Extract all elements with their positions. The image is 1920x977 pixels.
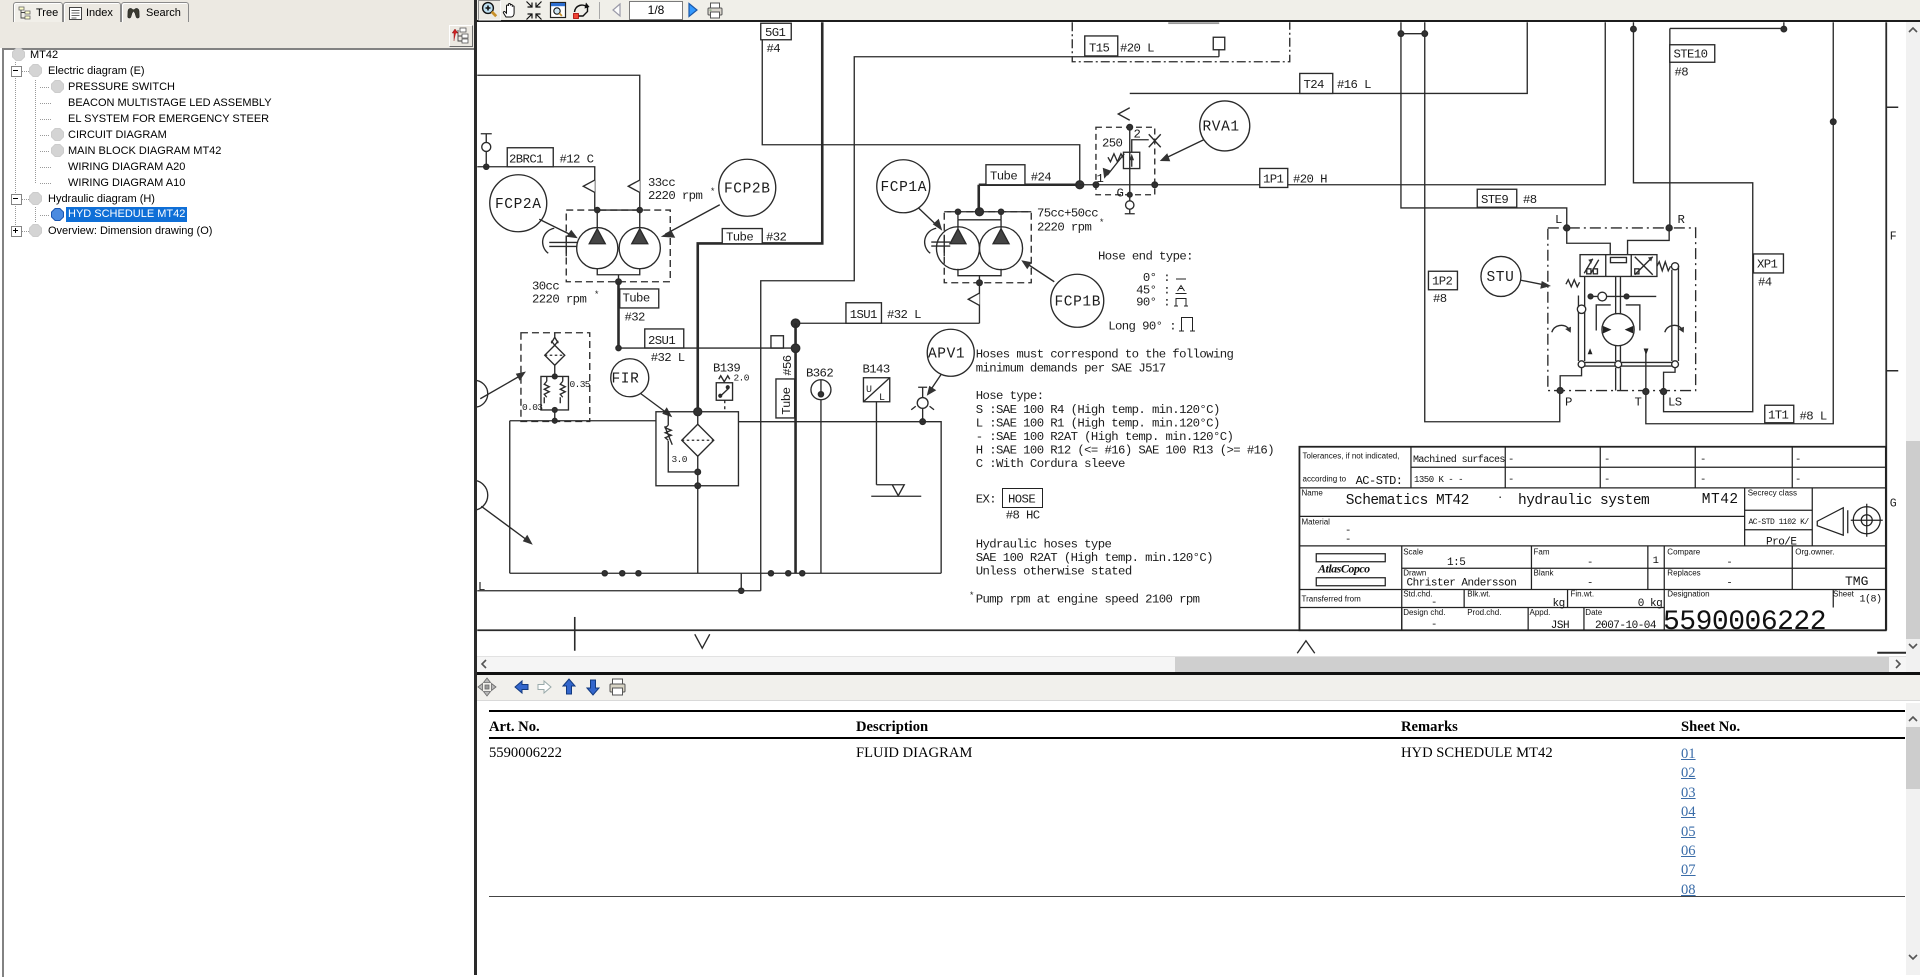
flow arrow on 2BRC1 line bbox=[583, 180, 595, 192]
wire: 2BRC1 suction line bbox=[477, 167, 595, 210]
STU right spring bbox=[1657, 262, 1671, 271]
wire: STE10 jumper and R riser bbox=[1670, 28, 1784, 228]
svg-text:90° :: 90° : bbox=[1136, 296, 1170, 310]
label STE9 box bbox=[1477, 189, 1517, 207]
valve RVA1 dashed envelope bbox=[1096, 127, 1155, 195]
sensor B143 level switch bbox=[863, 378, 889, 402]
node on LS riser bbox=[1631, 26, 1637, 32]
wire: L return line bbox=[477, 573, 761, 591]
svg-text:B362: B362 bbox=[806, 367, 833, 381]
svg-text:#8: #8 bbox=[1523, 193, 1537, 207]
STU bottom gallery double line bbox=[1582, 362, 1676, 366]
STU T branch bbox=[1645, 349, 1647, 391]
svg-text:B143: B143 bbox=[863, 363, 890, 377]
node: STU P port bbox=[1557, 388, 1563, 394]
FCP2 outlet bracket bbox=[597, 268, 640, 282]
pump FCP2A flow triangle bbox=[589, 210, 605, 244]
pressure switch B139 bbox=[716, 383, 732, 401]
wire: B143 stem bbox=[875, 402, 877, 485]
node: STU R port bbox=[1666, 225, 1672, 231]
wire: Tube #24 thick FCP1 feed bbox=[979, 185, 1080, 211]
balloon clipped lower left bbox=[458, 480, 488, 510]
svg-text:Replaces: Replaces bbox=[1667, 569, 1700, 578]
cylinder gray bar bbox=[1168, 22, 1219, 24]
svg-text:G: G bbox=[1890, 497, 1897, 510]
FCP1 shaft arc bbox=[925, 228, 937, 253]
svg-text:-: - bbox=[1726, 578, 1732, 590]
steering unit STU dash-dot envelope bbox=[1548, 228, 1696, 391]
svg-text:L: L bbox=[879, 393, 885, 404]
svg-text:-: - bbox=[1795, 454, 1801, 466]
svg-text:FCP1B: FCP1B bbox=[1055, 295, 1102, 311]
test point symbol above 2BRC1 bbox=[481, 134, 492, 167]
balloon FCP1B bbox=[1051, 274, 1104, 327]
svg-text:2007-10-04: 2007-10-04 bbox=[1595, 620, 1657, 632]
FCP1 outlet bracket bbox=[958, 269, 1001, 283]
svg-text:2: 2 bbox=[1134, 128, 1141, 142]
nodes on reservoir line bbox=[602, 571, 607, 576]
title block outer frame bbox=[1299, 447, 1885, 631]
svg-text:Sheet: Sheet bbox=[1833, 590, 1855, 599]
svg-text:2220 rpm: 2220 rpm bbox=[1037, 221, 1091, 235]
node on 1P2 riser bbox=[1422, 31, 1428, 37]
label XP1 box bbox=[1753, 254, 1783, 273]
label 2SU1 box bbox=[645, 329, 684, 348]
label 2BRC1 bbox=[507, 148, 553, 167]
svg-text:L :SAE 100 R1 (High temp. min: L :SAE 100 R1 (High temp. min.120°C) bbox=[976, 416, 1220, 430]
leader FIR bbox=[640, 393, 667, 413]
filter bypass branch bbox=[665, 412, 698, 472]
svg-text:Compare: Compare bbox=[1667, 548, 1700, 557]
wire: strainer return line bbox=[510, 421, 656, 574]
label 1P1 box bbox=[1260, 168, 1288, 187]
svg-text:-: - bbox=[1345, 534, 1351, 546]
svg-text:FIR: FIR bbox=[612, 372, 640, 388]
filter FIR diamond bbox=[682, 424, 714, 456]
connector square on 2SU1 line bbox=[771, 336, 784, 348]
tree rows bbox=[12, 48, 25, 61]
frame fold dash bbox=[1877, 652, 1908, 654]
svg-text:-: - bbox=[1587, 578, 1593, 590]
node: RVA1 top port bbox=[1127, 124, 1133, 130]
svg-text:#4: #4 bbox=[1758, 276, 1772, 290]
node: FIR junctions bbox=[697, 412, 699, 486]
svg-text:-: - bbox=[1795, 474, 1801, 486]
svg-text:#16 L: #16 L bbox=[1337, 78, 1371, 92]
hose end glyphs bbox=[1174, 279, 1195, 331]
node: RVA1 right port bbox=[1152, 182, 1158, 188]
wire across FCP1 case top bbox=[947, 211, 1031, 213]
svg-text:AtlasCopco: AtlasCopco bbox=[1317, 562, 1370, 576]
pump FCP1A circle bbox=[936, 227, 979, 270]
wire: FCP1 outlet to 1SU1 bbox=[796, 283, 980, 324]
RVA1 pilot riser bbox=[1130, 127, 1149, 195]
left blue arrow bbox=[515, 681, 528, 693]
svg-text:Tube: Tube bbox=[623, 292, 650, 306]
drawing frame right border bbox=[1885, 22, 1887, 630]
svg-text:Tube: Tube bbox=[990, 170, 1017, 184]
B139 dashed stem bbox=[724, 400, 726, 412]
svg-text:-: - bbox=[1508, 474, 1514, 486]
svg-text:1P2: 1P2 bbox=[1432, 275, 1453, 289]
svg-text:FCP2B: FCP2B bbox=[724, 182, 771, 198]
svg-text:1(8): 1(8) bbox=[1860, 594, 1882, 606]
svg-text:30cc: 30cc bbox=[532, 280, 559, 294]
svg-text:-: - bbox=[1700, 454, 1706, 466]
svg-text:3.0: 3.0 bbox=[672, 454, 688, 465]
filter FIR housing bbox=[656, 412, 739, 486]
STU P drop bbox=[1560, 368, 1581, 391]
STU gerotor triangles bbox=[1603, 326, 1633, 334]
wire: APV1 drain line bbox=[738, 422, 941, 574]
svg-text:#8: #8 bbox=[1675, 66, 1689, 80]
svg-text:-: - bbox=[1604, 474, 1610, 486]
svg-text:L: L bbox=[478, 580, 485, 594]
svg-text:MT42: MT42 bbox=[1702, 492, 1739, 508]
svg-text:SAE 100 R2AT (High temp. min.1: SAE 100 R2AT (High temp. min.120°C) bbox=[976, 551, 1213, 565]
svg-text:2220 rpm: 2220 rpm bbox=[532, 293, 586, 307]
svg-text:Christer Andersson: Christer Andersson bbox=[1407, 578, 1517, 590]
RVA1 relief cartridge square bbox=[1123, 152, 1139, 168]
svg-text:STE9: STE9 bbox=[1481, 193, 1508, 207]
balloon FIS clipped at edge bbox=[461, 380, 488, 407]
STU valve block bbox=[1580, 255, 1657, 277]
svg-text:EX:: EX: bbox=[976, 493, 996, 507]
label 1SU1 box bbox=[846, 303, 882, 324]
right white arrow bbox=[538, 681, 551, 693]
pump FCP2A circle bbox=[577, 228, 618, 269]
node: STU L port bbox=[1564, 225, 1570, 231]
forward bbox=[689, 4, 697, 17]
svg-text:Fin.wt.: Fin.wt. bbox=[1571, 590, 1595, 599]
node: FCP2A pump inlet bbox=[595, 207, 600, 212]
STU left spring bbox=[1566, 280, 1580, 287]
svg-text:#20 L: #20 L bbox=[1120, 42, 1154, 56]
wire bridge at top bbox=[1401, 33, 1425, 35]
svg-text:XP1: XP1 bbox=[1757, 258, 1778, 272]
svg-text:Material: Material bbox=[1302, 518, 1331, 527]
label 1P2 box bbox=[1428, 271, 1457, 290]
svg-text:U: U bbox=[866, 385, 872, 396]
frame caret mark bbox=[1297, 641, 1315, 654]
svg-text:Org.owner.: Org.owner. bbox=[1795, 548, 1834, 557]
svg-text:S :SAE 100 R4 (High temp. min: S :SAE 100 R4 (High temp. min.120°C) bbox=[976, 403, 1220, 417]
node on return line bbox=[552, 418, 557, 423]
svg-text:Long 90° :: Long 90° : bbox=[1108, 320, 1176, 334]
wire: 1P1 pressure line bbox=[1080, 22, 1606, 185]
pump FCP2B circle bbox=[619, 228, 660, 269]
node: FCP1 outlet bbox=[977, 280, 983, 286]
svg-text:Designation: Designation bbox=[1667, 590, 1709, 599]
svg-text:Machined surfaces: Machined surfaces bbox=[1413, 454, 1505, 466]
svg-text:*: * bbox=[594, 290, 599, 300]
label Tube #24 box bbox=[986, 165, 1025, 185]
STU down arrow bbox=[1644, 349, 1649, 356]
svg-text:1P1: 1P1 bbox=[1263, 173, 1284, 187]
svg-text:5G1: 5G1 bbox=[765, 26, 786, 40]
svg-text:C :With Cordura sleeve: C :With Cordura sleeve bbox=[976, 457, 1125, 471]
svg-text:Hose type:: Hose type: bbox=[976, 389, 1044, 403]
node below bypass bbox=[552, 408, 557, 413]
node: 2BRC1 junction bbox=[484, 164, 489, 169]
svg-text:Blank: Blank bbox=[1534, 569, 1555, 578]
thick tube wire FCP2 outlet down to 2SU1 bbox=[617, 282, 620, 348]
svg-text:Design chd.: Design chd. bbox=[1403, 608, 1445, 617]
svg-text:Hoses must correspond to the f: Hoses must correspond to the following bbox=[976, 348, 1234, 362]
svg-text:T15: T15 bbox=[1089, 42, 1110, 56]
splitter bbox=[474, 0, 477, 975]
STU left curved arrow bbox=[1552, 325, 1569, 332]
svg-text:AC-STD 1102 K/: AC-STD 1102 K/ bbox=[1749, 518, 1810, 527]
EX HOSE box bbox=[1003, 489, 1043, 508]
svg-text:1: 1 bbox=[1097, 172, 1104, 186]
leader FCP1B bbox=[1026, 263, 1054, 282]
svg-text:2SU1: 2SU1 bbox=[648, 334, 675, 348]
label Tube #32 upper bbox=[722, 229, 762, 244]
strainer filter diamond bbox=[545, 345, 565, 365]
STU LS branch bbox=[1664, 368, 1676, 392]
label Tube #32 on FCP2 outlet bbox=[620, 289, 659, 308]
STU right cell arrows bbox=[1635, 257, 1653, 275]
label T15 box bbox=[1085, 36, 1118, 56]
pump FCP2B flow triangle bbox=[632, 210, 648, 244]
node: FCP2 outlet junction bbox=[616, 279, 622, 285]
wire: T24 line bbox=[1130, 22, 1528, 93]
svg-text:Transferred from: Transferred from bbox=[1302, 595, 1362, 604]
frame center V mark bbox=[695, 634, 710, 648]
wire: STE9 from top bbox=[1401, 22, 1567, 228]
leader FCP2A bbox=[539, 219, 573, 236]
svg-text:G: G bbox=[1117, 187, 1124, 201]
projection cone symbol bbox=[1817, 508, 1848, 536]
svg-text:#56: #56 bbox=[781, 355, 795, 376]
svg-text:according to: according to bbox=[1303, 475, 1347, 484]
leader RVA1 bbox=[1165, 140, 1204, 159]
svg-text:FCP1A: FCP1A bbox=[881, 180, 928, 196]
RVA1 spring bbox=[1108, 154, 1124, 162]
title block bottom rows bbox=[1299, 590, 1833, 631]
tree connector dotted lines bbox=[15, 62, 16, 230]
label Tube #56 vertical bbox=[776, 379, 795, 418]
svg-text:Secrecy class: Secrecy class bbox=[1748, 489, 1797, 498]
up blue arrow bbox=[563, 679, 575, 694]
node: STU T port bbox=[1643, 389, 1649, 395]
move icon bbox=[478, 678, 496, 696]
svg-text:Scale: Scale bbox=[1403, 548, 1424, 557]
svg-text:R: R bbox=[1678, 213, 1686, 227]
wire: FCP2B inlet from left edge bbox=[477, 75, 640, 210]
node: APV1 tee bbox=[920, 419, 926, 425]
node: STU LS port bbox=[1661, 389, 1667, 395]
svg-text:T24: T24 bbox=[1304, 78, 1325, 92]
node: FCP1 thick feed junction bbox=[975, 208, 983, 216]
collapse arrows bbox=[527, 2, 542, 20]
print bbox=[610, 679, 625, 695]
thick tube wire from top to FIR filter bbox=[698, 22, 823, 412]
STU bottom ball joints bbox=[1578, 361, 1585, 368]
wire: FIR to tank bbox=[697, 486, 699, 574]
node: FCP1A inlet bbox=[955, 209, 960, 214]
RVA1 adjust arrow bbox=[1107, 154, 1124, 176]
leader FCP2B bbox=[665, 205, 720, 235]
svg-text:#8 L: #8 L bbox=[1800, 410, 1827, 424]
flow arrow on FCP1 outlet bbox=[968, 293, 979, 305]
STU right double pipe bbox=[1672, 266, 1679, 361]
STU check valve row bbox=[1591, 295, 1657, 297]
Atlas Copco logo bars bbox=[1316, 554, 1385, 562]
svg-text:Tube: Tube bbox=[726, 230, 753, 244]
svg-text:Date: Date bbox=[1585, 608, 1602, 617]
title block name/material rows bbox=[1299, 488, 1885, 546]
wire: 1P2 supply from top bbox=[1425, 22, 1560, 422]
projection target symbol bbox=[1853, 507, 1880, 534]
node: FCP1B inlet bbox=[998, 209, 1003, 214]
svg-text:Tube: Tube bbox=[780, 387, 794, 414]
svg-text:F: F bbox=[1890, 230, 1897, 243]
label 5G1 box bbox=[761, 23, 792, 40]
svg-text:*: * bbox=[1099, 218, 1104, 228]
connector square on cylinder bbox=[1213, 37, 1225, 50]
svg-text:#32: #32 bbox=[625, 311, 646, 325]
svg-text:-: - bbox=[1431, 597, 1437, 609]
down blue arrow bbox=[587, 680, 599, 695]
svg-text:#20 H: #20 H bbox=[1293, 173, 1327, 187]
svg-text:Pump rpm at engine speed 2100: Pump rpm at engine speed 2100 rpm bbox=[976, 593, 1200, 607]
title block scale rows bbox=[1299, 546, 1885, 630]
STU up arrow bbox=[1588, 348, 1593, 354]
rotate bbox=[575, 5, 588, 12]
strainer check valve top bbox=[551, 333, 558, 346]
svg-text:0.03: 0.03 bbox=[522, 402, 543, 413]
wire: reservoir top line bbox=[510, 572, 941, 574]
svg-text:APV1: APV1 bbox=[928, 347, 965, 363]
wire: B362 stem to tank bbox=[820, 400, 822, 574]
svg-text:75cc+50cc: 75cc+50cc bbox=[1037, 207, 1098, 221]
RVA1 closed port X bbox=[1149, 134, 1161, 147]
title block tolerance rows bbox=[1299, 447, 1885, 488]
wire: XP1 stub bbox=[1783, 22, 1785, 29]
STU L/R entry wires bbox=[1567, 228, 1669, 255]
label STE10 box bbox=[1670, 45, 1715, 63]
balloon FCP2A bbox=[490, 175, 547, 232]
drawing frame bottom border bbox=[477, 629, 1886, 631]
svg-text:kg: kg bbox=[1553, 598, 1565, 610]
separator bbox=[599, 2, 601, 19]
svg-text:0 kg: 0 kg bbox=[1638, 598, 1662, 610]
pump unit FCP2 dashed case bbox=[566, 210, 670, 282]
hand bbox=[503, 3, 514, 17]
svg-text:P: P bbox=[1565, 396, 1572, 410]
svg-text:TMG: TMG bbox=[1845, 574, 1868, 589]
svg-text:H :SAE 100 R12 (<= #16) SAE 1: H :SAE 100 R12 (<= #16) SAE 100 R13 (>= … bbox=[976, 443, 1274, 457]
svg-text:Name: Name bbox=[1302, 489, 1324, 498]
bypass spring left bbox=[544, 376, 549, 403]
wire across FCP2 case top bbox=[595, 209, 640, 211]
zoom plus bbox=[483, 3, 494, 14]
svg-text:-: - bbox=[1726, 557, 1732, 569]
STU pilot ball right bbox=[1671, 263, 1678, 270]
svg-text:1: 1 bbox=[1653, 555, 1659, 567]
svg-text:1T1: 1T1 bbox=[1768, 409, 1789, 423]
svg-text:FCP2A: FCP2A bbox=[495, 197, 542, 213]
cylinder 5G1 dash-dot housing bbox=[1072, 22, 1290, 62]
FCP1 inlet manifold bbox=[958, 212, 1001, 220]
svg-text:minimum demands per SAE J517: minimum demands per SAE J517 bbox=[976, 362, 1166, 376]
label 1T1 box bbox=[1765, 405, 1794, 423]
svg-text:Hydraulic hoses type: Hydraulic hoses type bbox=[976, 538, 1112, 552]
svg-text:Blk.wt.: Blk.wt. bbox=[1467, 590, 1491, 599]
svg-text:Fam: Fam bbox=[1534, 548, 1550, 557]
flow arrow on FCP2B inlet bbox=[628, 180, 640, 192]
locate button bbox=[449, 25, 473, 47]
wire: T15 return line to reservoir bbox=[761, 50, 1219, 591]
wire: 5G1 drop line bbox=[762, 40, 1080, 185]
pump FCP1B flow triangle bbox=[993, 220, 1009, 244]
back bbox=[613, 4, 620, 16]
label T24 box bbox=[1300, 73, 1333, 93]
svg-text:-: - bbox=[1431, 619, 1437, 631]
node: tube24 junction bbox=[1076, 181, 1084, 189]
FCP2 drive shaft bbox=[549, 236, 577, 256]
svg-text:#8: #8 bbox=[1433, 292, 1447, 306]
svg-text:Unless otherwise stated: Unless otherwise stated bbox=[976, 565, 1132, 579]
STU T stem bbox=[1616, 368, 1621, 391]
svg-text:Appd.: Appd. bbox=[1530, 608, 1551, 617]
svg-text:JSH: JSH bbox=[1551, 620, 1569, 632]
STU left ball bbox=[1577, 305, 1585, 313]
svg-text:-: - bbox=[1700, 474, 1706, 486]
STU center double stem bbox=[1616, 276, 1621, 361]
svg-text:Prod.chd.: Prod.chd. bbox=[1467, 608, 1501, 617]
node: RVA1 port1 bbox=[1093, 182, 1099, 188]
valve APV1 breather bbox=[918, 387, 927, 397]
svg-text:HOSE: HOSE bbox=[1008, 493, 1035, 507]
svg-text:-: - bbox=[1587, 557, 1593, 569]
leader lower left balloon bbox=[481, 506, 527, 540]
node on STE9 riser bbox=[1398, 31, 1404, 37]
svg-text:*: * bbox=[969, 591, 974, 601]
node: 2SU1 big junction bbox=[791, 344, 799, 352]
svg-text:#32: #32 bbox=[766, 230, 787, 244]
FCP1 drive shaft bbox=[931, 236, 950, 256]
node: 1SU1 big junction bbox=[791, 319, 799, 327]
svg-text:5590006222: 5590006222 bbox=[1663, 607, 1826, 638]
svg-text:Pro/E: Pro/E bbox=[1766, 537, 1797, 549]
frame tick bottom bbox=[574, 617, 576, 651]
svg-text:250: 250 bbox=[1102, 137, 1123, 151]
svg-text:T: T bbox=[1635, 396, 1642, 410]
title block texts bbox=[1302, 452, 1855, 617]
wire: 2SU1 line bbox=[619, 347, 796, 349]
balloon FCP2B bbox=[719, 159, 776, 216]
sensor B362 bbox=[811, 380, 831, 400]
frame right ticks bbox=[1886, 107, 1898, 371]
node STE10 jumper end bbox=[1781, 26, 1787, 32]
svg-text:*: * bbox=[710, 187, 715, 197]
STU gerotor circle bbox=[1602, 314, 1634, 346]
svg-text:0.35: 0.35 bbox=[570, 379, 591, 390]
STU left cell arrows bbox=[1584, 259, 1593, 274]
svg-text:#32 L: #32 L bbox=[887, 308, 921, 322]
B143 drain symbol bbox=[871, 485, 921, 497]
page box bbox=[630, 2, 683, 20]
svg-text:1350 K - -: 1350 K - - bbox=[1414, 475, 1463, 485]
svg-text:#32 L: #32 L bbox=[651, 351, 685, 365]
svg-text:LS: LS bbox=[1668, 396, 1682, 410]
svg-text:Hose end type:: Hose end type: bbox=[1098, 250, 1193, 264]
svg-text:#24: #24 bbox=[1031, 171, 1052, 185]
svg-text:·: · bbox=[1497, 492, 1503, 504]
